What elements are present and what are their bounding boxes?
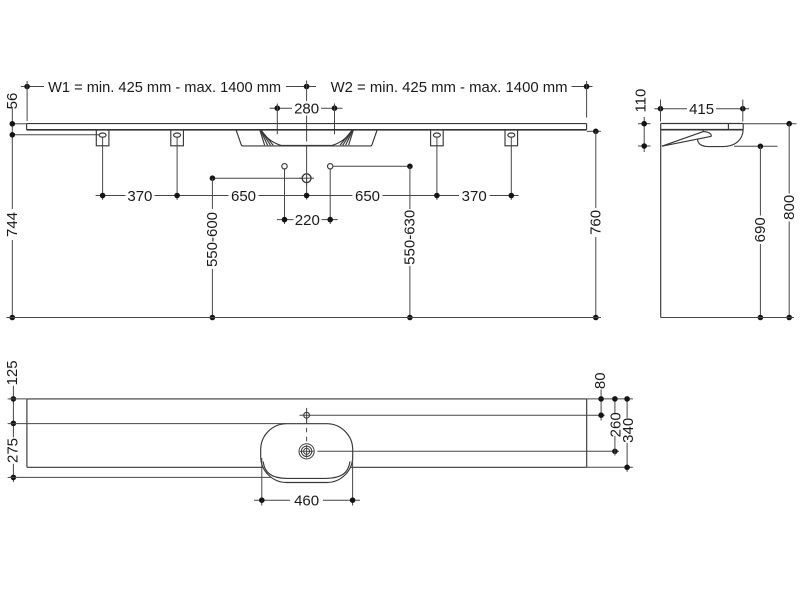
svg-text:W1 = min. 425 mm - max. 1400 m: W1 = min. 425 mm - max. 1400 mm: [48, 79, 281, 96]
extension line left W1: [26, 81, 28, 121]
svg-text:125: 125: [4, 360, 21, 385]
dimension 280 line: [270, 105, 343, 111]
extension 415 left: [660, 100, 662, 122]
centerline axis front: [306, 81, 308, 102]
basin plan inner bottom curve: [263, 462, 350, 479]
dimension 260 line: [612, 396, 618, 455]
dimension 800 vertical line: [786, 124, 792, 321]
dimension 415 line: [654, 106, 749, 112]
dimension 800 tick: [743, 121, 796, 127]
dimension row 370-650-650-370 line: [96, 193, 519, 199]
basin front hatch left: [260, 130, 273, 145]
basin side profile wedge: [662, 130, 712, 146]
svg-text:W2 = min. 425 mm - max. 1400 m: W2 = min. 425 mm - max. 1400 mm: [331, 79, 568, 96]
mounting hole circle right: [328, 164, 333, 169]
wall bracket 1: [96, 130, 109, 200]
basin front view outline: [236, 130, 377, 146]
dimension 80 line: [598, 390, 604, 421]
faucet hole symbol plan: [300, 408, 605, 443]
dimension 220 line: [277, 217, 338, 223]
basin front bowl curve: [261, 130, 352, 145]
mounting hole circle left: [282, 164, 287, 169]
svg-text:110: 110: [633, 89, 650, 113]
floor line side view: [661, 317, 794, 319]
svg-text:460: 460: [294, 493, 319, 510]
wall bracket 2: [171, 130, 184, 200]
dimension 340 line: [624, 396, 630, 472]
wall line side view: [660, 124, 662, 318]
dimension 460 line: [254, 497, 360, 503]
line from 550-600 to faucet symbol: [210, 175, 302, 181]
extension line basin top: [8, 423, 286, 425]
extension slab top to 56 dot: [12, 123, 26, 125]
dimension W1 line: [21, 84, 316, 90]
dimension 56 and 744 vertical line: [10, 107, 16, 321]
basin side bowl curve: [698, 130, 744, 147]
dimension 690 tick: [734, 144, 778, 150]
dimension 460 extension left: [261, 458, 263, 506]
line 56 bottom to bracket slot: [12, 134, 99, 136]
hole extension line right: [329, 169, 331, 224]
extension line 280 right: [334, 104, 336, 135]
svg-text:744: 744: [4, 212, 21, 237]
line from hole right to 550-630: [333, 164, 413, 170]
dimension W2 line: [572, 84, 593, 90]
dimension 550-600 vertical line: [210, 178, 216, 320]
dimension 110 line: [638, 117, 651, 152]
dimension 125 and 275 vertical line: [11, 386, 17, 482]
basin front hatch right: [340, 130, 353, 145]
svg-text:760: 760: [588, 210, 605, 235]
svg-text:280: 280: [294, 101, 319, 118]
svg-text:56: 56: [4, 93, 21, 110]
svg-text:370: 370: [127, 188, 152, 205]
extension line 280 left: [276, 104, 278, 135]
countertop slab front view: [27, 124, 587, 130]
extension 415 right: [742, 100, 744, 122]
svg-text:80: 80: [592, 372, 609, 389]
countertop slab side view: [661, 124, 744, 130]
wall bracket 3: [431, 130, 444, 200]
dimension 550-630 vertical line: [407, 166, 413, 320]
extension line right W2: [586, 81, 588, 118]
svg-text:650: 650: [231, 188, 256, 205]
dimension 460 extension right: [352, 458, 354, 506]
floor line front view: [7, 317, 602, 319]
svg-text:340: 340: [620, 418, 637, 443]
svg-text:550-600: 550-600: [204, 212, 221, 267]
extension plan top-right: [587, 398, 633, 400]
hole extension line left: [284, 169, 286, 224]
svg-text:220: 220: [295, 212, 320, 229]
svg-text:800: 800: [781, 195, 798, 220]
svg-text:415: 415: [689, 101, 714, 118]
svg-text:550-630: 550-630: [402, 210, 419, 265]
basin plan outline: [261, 424, 353, 483]
extension line basin inner bottom: [8, 476, 271, 478]
extension plan top-left: [8, 398, 27, 400]
extension plan bottom-right: [587, 466, 633, 468]
svg-text:690: 690: [752, 217, 769, 242]
dimension 760 vertical line: [593, 131, 599, 320]
wall bracket 4: [505, 130, 518, 200]
dimension 760 tick at slab: [587, 129, 601, 135]
svg-text:650: 650: [355, 188, 380, 205]
countertop plan rectangle: [27, 399, 587, 467]
dimension 690 vertical line: [758, 146, 764, 320]
faucet axis symbol front: [299, 171, 314, 186]
svg-text:275: 275: [5, 438, 22, 463]
svg-text:370: 370: [462, 188, 487, 205]
drain symbol plan: [299, 444, 619, 459]
